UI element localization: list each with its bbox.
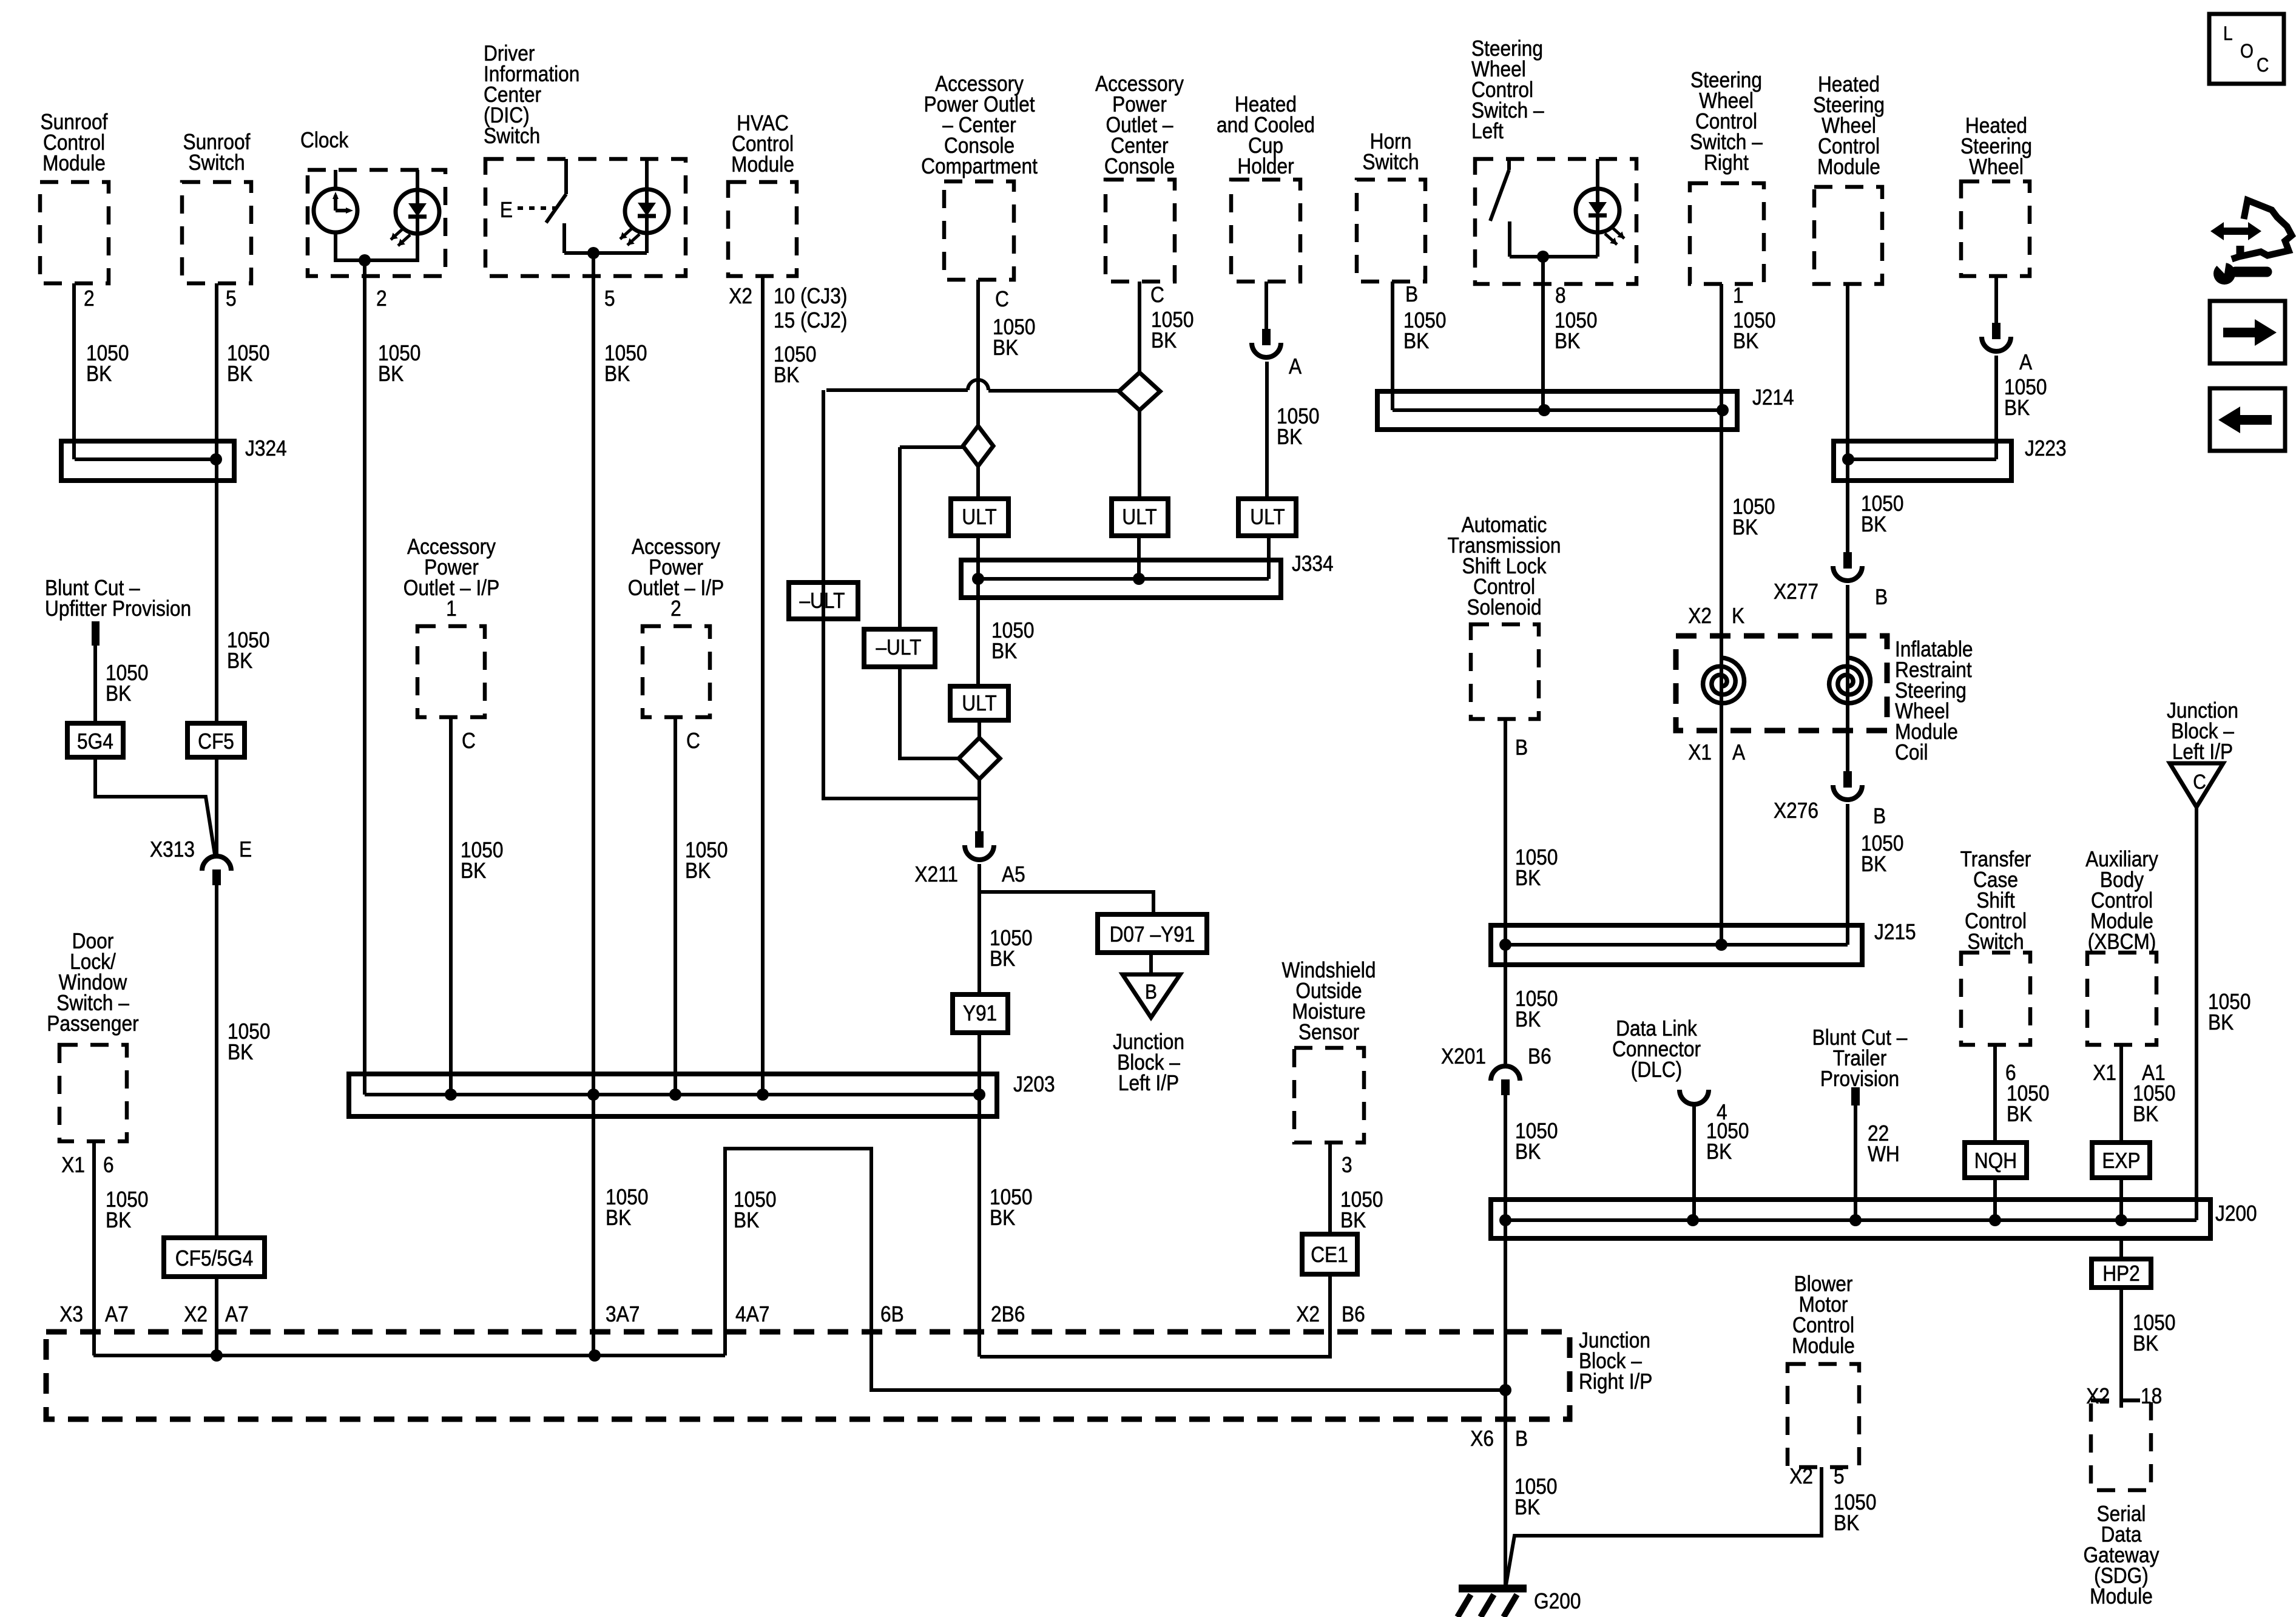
wire X211 to Y91 [979,864,1153,994]
wire X276 to J215 [1846,804,1849,945]
splice ULT lower [950,686,1008,720]
svg-text:Left I/P: Left I/P [1118,1071,1179,1095]
svg-text:Right I/P: Right I/P [1579,1369,1652,1394]
svg-text:L: L [2223,23,2233,44]
svg-text:BK: BK [774,363,800,387]
svg-text:BK: BK [378,362,404,386]
svg-text:X1: X1 [1688,740,1712,765]
svg-text:ULT: ULT [962,505,996,529]
svg-text:Module: Module [731,152,794,177]
node J334 junction 2 [1133,573,1145,585]
wire upfitter blunt cut [93,646,97,723]
node 6B junction [1499,1384,1511,1396]
wire clock pin 2 [363,260,366,1095]
node J203 junction 4 [757,1089,769,1101]
wire J223 bus [1848,457,1996,461]
wire X313 to CF5/5G4 [215,885,218,1238]
splice ULT cup holder [1238,499,1296,536]
svg-text:BK: BK [606,1206,632,1230]
svg-text:BK: BK [990,1206,1016,1230]
node J200 junction 4 [1989,1214,2001,1226]
splice 5G4 [67,723,123,757]
coil spiral right [1829,658,1871,703]
svg-text:Left I/P: Left I/P [2172,740,2233,764]
coil spiral left [1703,658,1744,703]
wire XBCM pin X1 A1 [2119,1045,2123,1143]
ground G200 [1459,1585,1527,1593]
clock face symbol [314,189,357,232]
wire clock internal [336,232,417,260]
svg-text:Passenger: Passenger [47,1011,138,1036]
svg-text:J324: J324 [245,436,287,461]
wire HSWCM to J223 [1846,284,1849,552]
svg-text:O: O [2240,41,2254,62]
wire SWCS left pin 8 [1541,257,1545,410]
svg-text:Left: Left [1471,119,1504,143]
wire CE1 to junction block bus X2 B6 [980,1274,1330,1357]
node J214 junction 1 [1538,404,1550,416]
svg-text:ULT: ULT [1250,505,1285,529]
splice HP2 [2119,1238,2123,1259]
svg-text:C: C [1150,283,1164,307]
svg-text:BK: BK [1151,328,1177,353]
svg-text:BK: BK [993,336,1019,360]
node bus A junction 2 [589,1349,601,1362]
svg-text:Coil: Coil [1895,740,1928,765]
svg-text:X276: X276 [1774,798,1818,823]
diamond splice right [1119,373,1160,410]
svg-text:BK: BK [1733,329,1759,353]
svg-text:3A7: 3A7 [606,1302,640,1326]
wire SWCS right pin 1 [1720,284,1723,410]
wire J215 bus [1505,943,1848,947]
junction J223 [1834,441,2011,481]
svg-text:CF5/5G4: CF5/5G4 [175,1246,253,1271]
svg-text:BK: BK [991,639,1018,663]
arrow right box [2210,301,2285,363]
wire cup holder pin A [1264,282,1268,329]
svg-text:CE1: CE1 [1311,1243,1348,1267]
svg-text:X3: X3 [59,1302,83,1326]
node DIC junction [587,247,599,259]
svg-text:4A7: 4A7 [735,1302,769,1326]
svg-text:J334: J334 [1292,552,1334,576]
clock illumination LED [396,190,439,234]
svg-text:Switch: Switch [1362,150,1419,174]
wire blower pin X2 5 [1506,1467,1822,1585]
svg-text:C: C [462,729,476,753]
wire J200 bus [1505,1218,2196,1222]
svg-text:BK: BK [604,362,630,386]
svg-text:BK: BK [1555,329,1581,353]
node J215 junction 2 [1715,939,1727,951]
wire sunroof control module pin 2 [72,283,76,459]
wire transfer case pin 6 [1993,1045,1997,1143]
splice NQH [1965,1143,2027,1178]
svg-text:X313: X313 [150,837,195,862]
svg-text:J223: J223 [2025,436,2067,461]
svg-text:Compartment: Compartment [921,154,1038,178]
svg-text:BK: BK [227,649,253,673]
svg-text:B: B [1873,804,1886,828]
wire ULT right to J334 [1137,536,1141,579]
node J223 junction [1842,453,1854,465]
svg-text:A7: A7 [105,1302,129,1326]
wire -ULT second branch [900,447,963,758]
svg-text:6: 6 [103,1153,114,1177]
svg-text:C: C [2257,55,2269,76]
svg-text:BK: BK [2133,1331,2159,1355]
svg-text:BK: BK [1515,1139,1541,1164]
wire SWCS left internal [1510,232,1598,257]
wire cup holder to ULT [1265,362,1269,499]
svg-text:(DLC): (DLC) [1631,1058,1682,1082]
svg-text:BK: BK [1515,866,1541,890]
svg-text:BK: BK [1340,1208,1366,1232]
diamond splice upper [963,426,993,466]
svg-text:5G4: 5G4 [77,729,113,754]
svg-text:BK: BK [106,681,132,706]
wire trailer blunt cut 22 WH [1854,1106,1857,1220]
splice ULT right [1112,499,1168,536]
svg-text:BK: BK [228,1040,254,1064]
svg-text:B: B [1875,585,1888,609]
wire APO console pin C [1138,282,1141,373]
splice CF5 [187,723,245,757]
svg-text:6B: 6B [880,1302,904,1326]
svg-text:3: 3 [1342,1153,1352,1177]
svg-text:X1: X1 [2093,1061,2116,1085]
svg-text:X2: X2 [1789,1464,1813,1488]
svg-text:–ULT: –ULT [799,589,845,613]
svg-text:BK: BK [1861,512,1887,536]
svg-text:B: B [1405,282,1418,306]
svg-text:Clock: Clock [300,128,348,152]
wire APO I/P 2 pin C [674,717,677,1095]
wire Y91 to J203 [977,1033,981,1095]
node J200 junction 1 [1499,1214,1511,1226]
svg-text:Sensor: Sensor [1298,1020,1359,1044]
svg-text:B: B [1515,735,1528,760]
node J200 junction 2 [1687,1214,1699,1226]
connector heated steering wheel pin A [1992,323,2001,339]
svg-text:X2: X2 [729,284,752,308]
svg-text:10 (CJ3): 10 (CJ3) [774,284,847,308]
wire 4A7 to 6B [725,1149,1505,1390]
wire heated steering wheel pin A [1994,276,1998,323]
svg-text:X211: X211 [914,862,958,886]
svg-text:X1: X1 [61,1153,85,1177]
svg-text:D07 –Y91: D07 –Y91 [1110,922,1195,947]
wire solenoid pin B [1504,719,1507,1064]
svg-text:BK: BK [990,947,1016,971]
wire DIC pin 5 [592,253,595,1355]
svg-text:BK: BK [2004,396,2030,420]
svg-text:5: 5 [1834,1464,1845,1488]
wire NQH to J200 [1993,1178,1997,1220]
wire ULT to J334 [976,536,980,686]
svg-text:A: A [2019,350,2032,374]
svg-text:(XBCM): (XBCM) [2088,930,2156,954]
svg-text:J200: J200 [2215,1201,2257,1226]
node bus A junction 1 [211,1349,223,1362]
svg-text:BK: BK [1706,1139,1732,1164]
svg-text:Wheel: Wheel [1969,155,2024,179]
inflatable restraint steering wheel module coil [1676,636,1887,731]
hand tool icon [2213,263,2235,285]
node J200 junction 5 [2115,1214,2127,1226]
wire APO I/P 1 pin C [449,717,453,1095]
svg-text:Right: Right [1704,150,1749,175]
node J203 junction 1 [445,1089,457,1101]
SWCS left illumination LED [1576,189,1619,232]
svg-text:BK: BK [2208,1010,2234,1035]
SWCS left switch contact [1507,159,1511,170]
DIC illumination LED [625,189,669,233]
diamond splice lower [977,720,981,738]
node J200 junction 3 [1849,1214,1862,1226]
wire -ULT branch bottom [823,390,978,798]
wire HP2 to SDG pin X2 18 [2119,1288,2123,1408]
svg-text:Solenoid: Solenoid [1467,595,1541,619]
splice EXP [2092,1143,2150,1178]
splice CF5/5G4 [164,1238,265,1277]
svg-text:EXP: EXP [2102,1149,2140,1173]
svg-text:Upfitter Provision: Upfitter Provision [45,596,191,621]
svg-text:Module: Module [2090,1584,2153,1609]
wire top branch with hop [826,390,1120,391]
junction J334 [961,560,1281,598]
svg-text:X201: X201 [1441,1044,1486,1068]
svg-text:Module: Module [1792,1334,1855,1358]
svg-text:BK: BK [1861,852,1887,876]
svg-text:B: B [1515,1426,1528,1451]
wire J214 bus [1393,408,1723,412]
svg-text:Switch: Switch [188,150,245,175]
svg-text:C: C [686,729,700,753]
svg-text:X6: X6 [1470,1426,1494,1451]
wire sunroof switch pin 5 [215,283,218,723]
svg-text:8: 8 [1555,283,1566,308]
wire CF5 to X313 [215,757,218,855]
svg-text:1: 1 [446,596,457,621]
wire J334 bus [978,577,1269,581]
wire SWCS right to J215 via coil [1720,410,1723,945]
wire J324 bus [75,457,216,461]
serial data gateway (SDG) module [2091,1400,2151,1490]
DIC switch contact [564,159,568,194]
svg-text:Y91: Y91 [963,1001,997,1025]
svg-text:BK: BK [1515,1007,1541,1031]
wire horn switch pin B [1391,282,1394,410]
wire Y91 J203 to 2B6 [977,1095,981,1357]
splice -ULT second [864,629,935,667]
node J214 junction 2 [1717,404,1729,416]
svg-text:Switch: Switch [1967,930,2024,954]
svg-text:BK: BK [685,859,711,883]
svg-text:X2: X2 [1688,604,1712,628]
wire lower diamond to X211 [977,779,981,831]
wire HVAC pin X2 10(CJ3) 15(CJ2) [761,276,765,1095]
wire door lock switch pin X1 6 [92,1141,96,1355]
svg-text:A5: A5 [1002,862,1025,886]
node J334 junction 1 [972,573,984,585]
node J203 junction 5 [973,1089,985,1101]
svg-text:2B6: 2B6 [991,1302,1025,1326]
junction J214 [1377,391,1737,430]
junction J200 [1491,1200,2210,1238]
svg-text:A7: A7 [225,1302,249,1326]
splice Y91 [953,994,1008,1033]
node J215 junction 1 [1499,939,1511,951]
svg-text:BK: BK [1834,1511,1860,1535]
svg-text:–ULT: –ULT [876,635,921,660]
svg-text:A: A [1289,354,1302,379]
svg-text:J215: J215 [1874,920,1916,944]
node J203 junction 3 [669,1089,681,1101]
svg-text:1: 1 [1733,283,1744,308]
wire triangle C to J200 [2195,807,2198,1220]
svg-text:WH: WH [1868,1142,1900,1166]
svg-text:J203: J203 [1013,1072,1055,1096]
connector cup holder pin A [1262,329,1271,345]
svg-text:X2: X2 [1296,1302,1320,1326]
svg-text:C: C [2193,770,2206,793]
svg-text:2: 2 [84,286,95,311]
node clock junction [359,254,371,266]
svg-text:C: C [995,287,1009,311]
svg-text:Holder: Holder [1237,154,1294,178]
svg-text:E: E [239,837,252,862]
svg-text:ULT: ULT [1122,505,1156,529]
svg-text:B: B [1145,980,1157,1003]
svg-text:B6: B6 [1342,1302,1365,1326]
wire 5G4 to X313 [95,757,215,854]
svg-text:BK: BK [1403,329,1430,353]
svg-text:BK: BK [461,859,487,883]
svg-text:BK: BK [2007,1102,2033,1126]
svg-text:BK: BK [86,362,112,386]
svg-text:Console: Console [1104,154,1175,178]
wire EXP to J200 [2119,1178,2123,1220]
svg-text:2: 2 [670,596,681,621]
splice CE1 [1302,1234,1357,1274]
wire sensor pin 3 [1328,1143,1332,1234]
node J203 junction 2 [587,1089,599,1101]
svg-text:NQH: NQH [1974,1149,2017,1173]
junction J203 [349,1074,997,1116]
svg-text:15 (CJ2): 15 (CJ2) [774,308,847,333]
svg-text:A: A [1732,740,1745,765]
node J324 junction [210,453,222,465]
svg-text:BK: BK [106,1208,132,1232]
arrow left box [2210,388,2285,451]
svg-text:E: E [500,198,513,222]
svg-text:CF5: CF5 [198,729,234,754]
svg-text:BK: BK [227,362,253,386]
svg-text:ULT: ULT [962,691,996,715]
node SWCS left junction [1537,251,1549,263]
wire ULT cup holder to J334 [1267,536,1271,579]
svg-text:5: 5 [226,286,237,311]
splice D07-Y91 [1098,914,1207,953]
LOC legend box [2209,14,2284,84]
svg-text:K: K [1732,604,1744,628]
svg-text:Module: Module [1817,155,1880,179]
wire CF5/5G4 to junction block bus X2 A7 [215,1277,218,1355]
svg-text:X277: X277 [1774,579,1818,604]
svg-text:Switch: Switch [484,124,540,148]
svg-text:2: 2 [376,286,387,311]
wire X201 to J200 and ground [1504,1095,1507,1587]
svg-text:BK: BK [734,1208,760,1232]
svg-text:B6: B6 [1528,1044,1551,1068]
junction block - left I/P triangle B [1123,974,1180,1018]
svg-text:G200: G200 [1534,1589,1581,1613]
wire connector A to J223 [1994,356,1998,459]
svg-text:BK: BK [1732,515,1758,539]
junction J324 [61,441,234,481]
junction J215 [1491,925,1862,965]
svg-text:BK: BK [1514,1495,1541,1519]
splice ULT [951,499,1008,536]
wire right I/P bus A [93,1354,725,1357]
svg-text:HP2: HP2 [2102,1261,2140,1286]
svg-text:Module: Module [42,151,106,175]
splice -ULT [789,582,858,619]
junction block - right I/P [46,1332,1570,1419]
svg-text:5: 5 [604,286,615,311]
svg-text:BK: BK [2133,1102,2159,1126]
svg-text:BK: BK [1277,425,1303,449]
svg-text:J214: J214 [1752,385,1794,410]
wire D07-Y91 to triangle B [1149,953,1153,974]
svg-text:X2: X2 [184,1302,208,1326]
wire DIC internal [564,233,647,253]
wire X277 to coil [1846,585,1849,771]
wire DLC pin 4 [1692,1104,1696,1220]
wire J203 bus [365,1093,979,1096]
